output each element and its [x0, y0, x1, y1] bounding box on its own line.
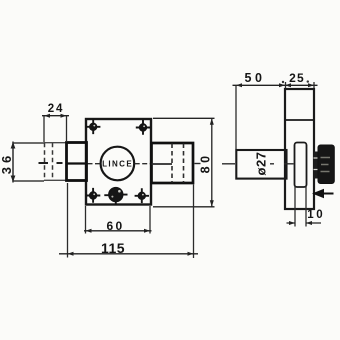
svg-text:ø27: ø27 — [254, 152, 269, 176]
dimension 80 line — [211, 118, 213, 207]
svg-text:50: 50 — [245, 71, 266, 85]
screw bottom-left — [86, 188, 100, 203]
bolt axis dash right — [195, 163, 201, 165]
central bottom knob screw — [104, 188, 127, 205]
hidden cylinder edge dashed right — [52, 143, 54, 181]
cylinder escutcheon front (36 high box) — [13, 142, 44, 183]
dimension 80 extension top — [153, 117, 215, 119]
side view: cylinder — [236, 150, 286, 179]
cylinder hidden body top edge — [44, 142, 67, 144]
dimension 24 line — [42, 115, 69, 117]
svg-text:24: 24 — [48, 103, 64, 115]
dimension 50 extension line (to cylinder) — [235, 86, 237, 150]
knob knurl streaks — [321, 158, 331, 172]
dimension 115 extension lines — [68, 183, 194, 258]
hidden cylinder edge dashed left — [44, 143, 46, 181]
svg-text:80: 80 — [199, 152, 213, 173]
dimension 115 line — [59, 253, 198, 255]
dimension 80 arrows — [210, 118, 214, 207]
front view: lock body plate — [86, 119, 151, 205]
bolt mid line — [152, 163, 173, 165]
bolt hidden line 2 — [183, 144, 185, 183]
cylinder hidden body bottom edge — [44, 179, 67, 181]
dimension 25 tick extensions — [286, 82, 315, 89]
svg-text:10: 10 — [307, 209, 325, 221]
svg-text:36: 36 — [0, 152, 14, 174]
knurled knob — [318, 145, 334, 184]
dimension 24 arrows — [44, 114, 67, 118]
dimension 60 arrows — [86, 229, 151, 233]
cylinder axis dashes — [39, 162, 63, 164]
bolt leader tail — [323, 193, 334, 195]
dimension tick dots — [282, 81, 284, 83]
dimension 60 line — [84, 230, 152, 232]
svg-text:25: 25 — [289, 71, 305, 85]
screw top-right — [136, 120, 150, 135]
screw top-left — [86, 119, 100, 134]
dimension 115 arrows — [68, 252, 194, 256]
cylinder collar against plate — [67, 143, 87, 181]
dimension 10 arrows — [289, 221, 312, 225]
knob stem — [314, 152, 319, 179]
bolt (right of plate) — [152, 143, 194, 183]
side view axis dash-dot — [222, 163, 294, 165]
svg-text:LINCE: LINCE — [102, 159, 133, 168]
svg-text:60: 60 — [107, 219, 125, 233]
dimension 10 extension lines — [295, 186, 306, 227]
side view: inner bolt guide — [295, 143, 307, 188]
plate centre line left of circle — [88, 163, 101, 165]
bolt leader arrow — [312, 189, 324, 199]
dimension 10 line segments — [287, 222, 322, 224]
side view: plate top level line — [285, 119, 314, 121]
LINCE logo circle — [101, 147, 135, 181]
dimension 80 extension bottom — [153, 206, 215, 208]
collar mid divider — [67, 162, 87, 164]
svg-text:115: 115 — [101, 240, 125, 256]
plate centre line right of circle — [135, 163, 151, 165]
dimension 36 arrows — [11, 142, 16, 182]
screw bottom-right — [135, 188, 149, 203]
dimension 24 extension lines — [44, 116, 67, 142]
bolt hidden line 1 — [171, 144, 173, 183]
side view: lock case — [285, 89, 314, 209]
dimension 50/25 arrows — [236, 83, 314, 87]
side view: top dimension line 50/25 — [233, 84, 318, 86]
dimension 60 extension lines — [86, 206, 151, 234]
